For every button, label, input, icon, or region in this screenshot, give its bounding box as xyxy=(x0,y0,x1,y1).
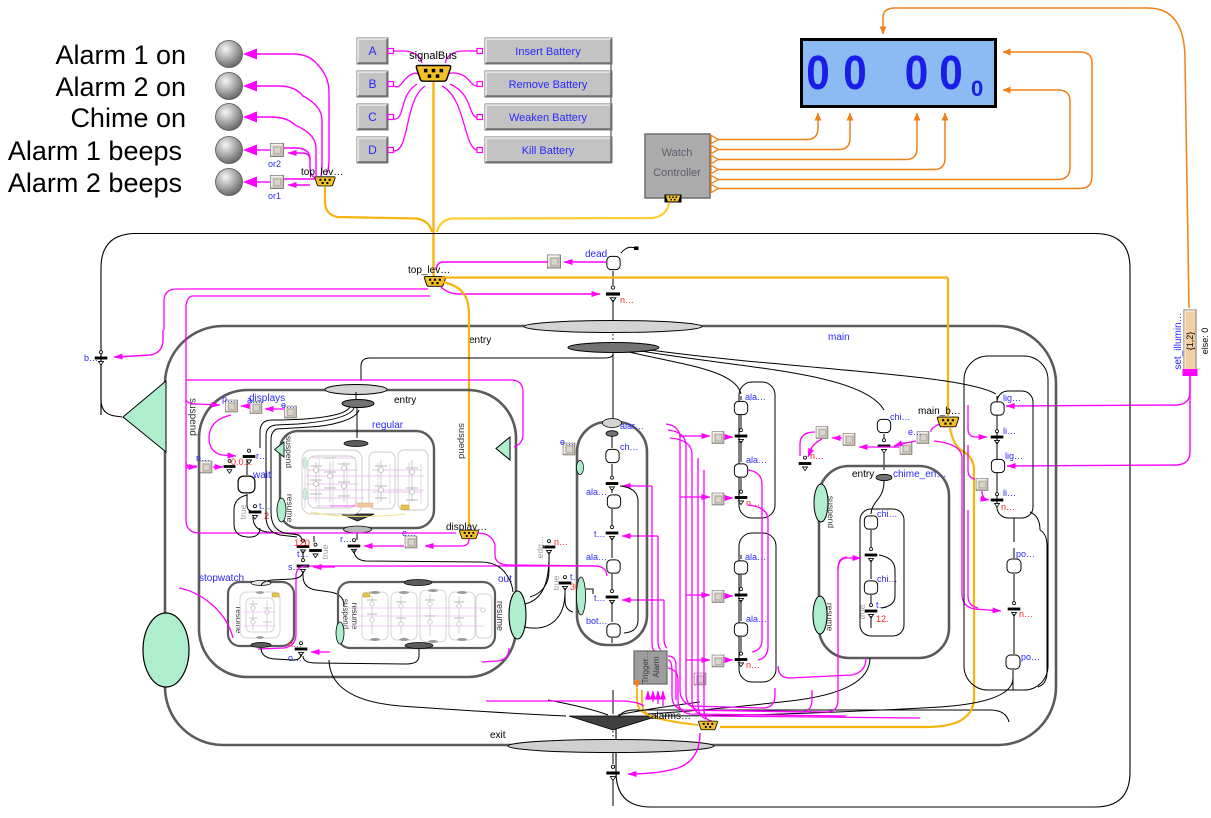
junction r bar (regular exit) xyxy=(348,539,361,554)
wire e to a xyxy=(265,408,284,410)
bus connector main_b xyxy=(937,417,958,427)
wire A1 to barA1 xyxy=(725,436,733,438)
junction po bar xyxy=(1008,602,1021,617)
chime_en container xyxy=(819,466,949,658)
alarm column container pill xyxy=(577,422,647,645)
bus wire top_lev down to main bus xyxy=(325,187,432,232)
SECTION:DISPLAY2 xyxy=(84,234,1130,808)
wire po bar left source xyxy=(968,510,978,608)
svg-text:0.0…: 0.0… xyxy=(231,457,253,467)
wire vertical feed t1 xyxy=(658,536,661,650)
logic block chime w2 xyxy=(843,434,855,446)
wire bundle tap y497 xyxy=(680,496,710,498)
state ala2 xyxy=(607,560,620,573)
state alaA2 xyxy=(734,464,747,477)
SECTION:CHIME2 xyxy=(964,356,1048,690)
logic block chime w3 xyxy=(900,443,912,455)
wire n block left loop xyxy=(186,466,197,470)
junction t bar (wait) xyxy=(249,505,262,520)
junction 00 bar xyxy=(224,460,236,474)
alarm loop right xyxy=(620,486,638,633)
transition dead down xyxy=(612,271,614,285)
svg-text:entry: entry xyxy=(394,395,416,406)
wire controller to display t1 xyxy=(719,113,818,140)
wire controller to display r1 xyxy=(719,90,1070,180)
transition ch to bar1 xyxy=(611,464,613,477)
bus wire down to main_b connector xyxy=(947,278,949,417)
svg-text:po…: po… xyxy=(1021,652,1040,662)
ghost yellow wire xyxy=(310,512,406,517)
bus wire main_b down right xyxy=(720,428,974,727)
suspend port triangle (main) xyxy=(123,381,166,452)
svg-text:Chime on: Chime on xyxy=(70,103,186,133)
svg-text:alar…: alar… xyxy=(620,421,644,431)
transition wait loop left xyxy=(234,495,260,537)
transition stopwatch link top xyxy=(261,571,303,586)
fan line entry to light column xyxy=(650,350,996,394)
svg-text:po…: po… xyxy=(1016,549,1035,559)
svg-text:signalBus: signalBus xyxy=(409,50,457,62)
wire or2 out to top_lev xyxy=(284,148,316,178)
transition regular bottom to r xyxy=(356,533,358,540)
bus connector top_lev (upper) xyxy=(315,177,335,186)
SECTION:OUTER2 xyxy=(186,385,526,678)
exit fan line left xyxy=(548,700,608,715)
exit fan from stopwatch xyxy=(329,660,566,716)
svg-text:regular: regular xyxy=(372,420,404,431)
fan line entry to chime xyxy=(641,351,884,410)
wire chime bottom exit xyxy=(778,658,866,678)
wire lamp2 to top_lev bundle xyxy=(256,86,322,176)
state chi1 xyxy=(864,516,877,529)
wire e block to chi bar xyxy=(894,441,916,446)
wire into n block xyxy=(186,462,197,467)
transition exit down xyxy=(612,752,614,764)
wire into triggeredalarm b xyxy=(652,691,654,702)
dead self-transition xyxy=(621,247,637,253)
bus wire top_lev to display connector xyxy=(443,282,469,526)
wide box top ellipse xyxy=(404,580,432,586)
junction b bar xyxy=(95,351,108,366)
alarm pill top dark ellipse xyxy=(606,431,618,437)
wire main_b to e block xyxy=(931,424,940,432)
junction chi bar top xyxy=(878,439,891,454)
svg-text:0: 0 xyxy=(806,45,829,99)
arrow into lamp4 xyxy=(243,145,257,156)
transition regular top line xyxy=(355,392,357,400)
wire loop into p block xyxy=(186,400,220,405)
arrow into lamp5 xyxy=(243,177,257,188)
svg-text:edg…: edg… xyxy=(535,536,545,559)
svg-text:t…: t… xyxy=(594,529,606,539)
junction bar t2 (alarm) xyxy=(606,590,619,605)
logic block chime w1 xyxy=(816,427,828,439)
wide box bottom ellipse xyxy=(405,643,433,649)
bus wire triggeredalarm to alarms a xyxy=(637,688,692,724)
svg-text:li…: li… xyxy=(1003,488,1016,498)
watch controller box xyxy=(645,134,710,198)
state po2 xyxy=(1006,655,1020,669)
svg-text:suspend: suspend xyxy=(456,423,467,459)
svg-text:n…: n… xyxy=(1001,502,1015,512)
svg-text:ala…: ala… xyxy=(745,552,766,562)
connector line lig group to vertical xyxy=(1030,512,1040,530)
wire block left from dead xyxy=(436,262,548,270)
controller output chevron 4 xyxy=(711,165,719,173)
wire signalBus to Weaken Battery xyxy=(450,84,481,118)
junction barB1 xyxy=(735,588,748,603)
svg-text:{1,2}: {1,2} xyxy=(1185,332,1195,351)
wire long horizontal y566 xyxy=(258,566,307,649)
state wait xyxy=(238,476,255,493)
junction li bar2 xyxy=(991,493,1004,508)
suspend triangle mid xyxy=(496,437,510,460)
set_illumination magenta cap xyxy=(1183,369,1198,376)
transition ala2 to t2 xyxy=(611,574,613,590)
wire button B to signalBus xyxy=(393,73,421,86)
junction 120 bar xyxy=(297,539,310,554)
inner bottom state boundary xyxy=(616,710,1009,745)
indicator lamp alarm1beeps xyxy=(216,137,243,164)
wire into li bar1 xyxy=(976,436,987,438)
junction barA2 xyxy=(735,490,748,505)
junction barA1 xyxy=(735,429,748,444)
terminal at Weaken xyxy=(477,115,483,120)
button Kill Battery xyxy=(485,39,612,163)
svg-text:chime_en…: chime_en… xyxy=(893,469,946,480)
ghost magenta wire xyxy=(330,505,356,507)
SECTION:TOPLEFT2 xyxy=(357,38,612,277)
svg-text:or1: or1 xyxy=(268,191,281,201)
controller output chevron 6 xyxy=(711,184,719,192)
transition chi1 to bar xyxy=(870,530,872,548)
wire e block to r bar xyxy=(364,545,404,547)
wire bundle v1 xyxy=(666,424,775,708)
svg-text:or2: or2 xyxy=(268,159,281,169)
regular bottom ellipse xyxy=(344,526,372,533)
logic block light xyxy=(976,479,988,491)
transition t down loop xyxy=(253,517,302,541)
transition r regular to out xyxy=(354,550,513,592)
wire bundle v5 xyxy=(704,470,712,721)
controller output chevron 1 xyxy=(711,135,719,143)
wire lamp5 to or1 xyxy=(256,181,270,183)
state dead xyxy=(607,256,620,269)
svg-text:A: A xyxy=(368,44,376,58)
light group outer container xyxy=(964,356,1048,690)
wire A2 to barA2 xyxy=(725,497,733,499)
svg-text:main: main xyxy=(828,332,850,343)
SECTION:SIGNALBUS2 xyxy=(437,8,1210,466)
exit fan from chime xyxy=(648,658,870,714)
wire chime right long xyxy=(934,441,1001,611)
transition displays entry second branch xyxy=(266,408,354,537)
bus connector alarms xyxy=(698,721,717,730)
wire display connector down right xyxy=(477,533,598,566)
transition lig2 links xyxy=(996,442,998,493)
svg-text:e…: e… xyxy=(560,437,574,447)
wire controller to display t4 xyxy=(719,113,945,170)
wire w3 to w2 xyxy=(859,446,899,448)
wire dead to block xyxy=(564,261,606,263)
wire horizontal y380 to suspend xyxy=(186,380,523,447)
state chi2 xyxy=(864,581,877,594)
wire alarms to exit bar xyxy=(628,733,700,774)
logic block or2 xyxy=(271,144,284,157)
bus connector on controller xyxy=(665,195,682,203)
resume port ellipse (main) xyxy=(143,613,189,687)
wire into chi bar1 xyxy=(845,557,861,559)
svg-text:chi…: chi… xyxy=(877,509,898,519)
entry ellipse dark (main) xyxy=(568,343,659,353)
svg-text:Weaken Battery: Weaken Battery xyxy=(509,112,588,124)
wire or1 out to top_lev xyxy=(284,178,316,180)
ghost bus icon xyxy=(401,505,409,510)
wire w2 to w1 xyxy=(832,437,842,439)
wire lamp4 to or2 xyxy=(256,149,270,151)
svg-text:0: 0 xyxy=(971,76,983,101)
wire lamp1 to top_lev bundle xyxy=(256,54,329,175)
svg-text:Remove Battery: Remove Battery xyxy=(509,79,588,91)
state ch xyxy=(606,449,619,462)
regular state container xyxy=(280,431,434,528)
svg-text:120: 120 xyxy=(294,538,310,549)
stopwatch top ellipse xyxy=(251,581,271,586)
terminal at C xyxy=(388,115,394,120)
wire loop light left xyxy=(968,445,975,479)
svg-text:else: 0: else: 0 xyxy=(1200,328,1210,355)
transition bar1 to ala1 xyxy=(611,489,613,493)
transition boundary to suspend triangle xyxy=(101,364,122,417)
transition true bar down xyxy=(565,588,573,612)
svg-text:li…: li… xyxy=(1003,426,1016,436)
bus connector top_lev lower xyxy=(424,277,445,287)
logic block e (alarm top) xyxy=(563,443,575,455)
svg-text:resume: resume xyxy=(825,603,835,632)
transition po bar to po2 xyxy=(1013,614,1014,690)
ghost bars wide box xyxy=(367,600,464,618)
wire signalBus to Insert Battery xyxy=(445,51,481,63)
transition po1 down xyxy=(1013,548,1015,602)
LCD digits hours xyxy=(806,45,963,99)
transition chi t down xyxy=(870,616,872,628)
transition chi top down xyxy=(883,434,885,470)
transition bot to bottom xyxy=(611,638,613,643)
main state container xyxy=(165,326,1056,745)
chime inner container xyxy=(860,509,904,636)
transition bar to chi2 xyxy=(870,560,872,604)
indicator lamp alarm2on xyxy=(216,73,243,100)
junction h bar xyxy=(606,286,620,302)
svg-text:stopwatch: stopwatch xyxy=(199,573,244,584)
logic block or1 xyxy=(271,176,284,189)
wire bundle tap y660 xyxy=(686,659,710,661)
logic block B1 xyxy=(712,591,724,603)
logic block p xyxy=(226,400,238,412)
regular top dark ellipse xyxy=(344,441,368,447)
svg-text:n…: n… xyxy=(810,451,824,461)
block set_illumination xyxy=(1184,310,1196,372)
svg-text:b…: b… xyxy=(84,353,98,363)
ghost green pills regular xyxy=(303,457,307,469)
wire display connector left xyxy=(425,539,469,546)
svg-text:0: 0 xyxy=(843,45,866,99)
terminal at Kill xyxy=(477,148,483,153)
hook mark xyxy=(586,589,593,594)
resume ellipse (regular) xyxy=(277,498,286,522)
transition t1 to ala2 xyxy=(611,538,613,558)
suspend triangle (regular) xyxy=(275,442,285,457)
wire resume into stopwatch xyxy=(179,588,233,638)
transition wide box bottom loop xyxy=(303,649,419,664)
svg-text:suspend: suspend xyxy=(284,436,294,468)
exit fan from light column xyxy=(660,678,1013,716)
wire into triggeredalarm a xyxy=(647,691,649,700)
svg-text:Alarm 1 beeps: Alarm 1 beeps xyxy=(8,136,182,166)
wire vertical feed t2 xyxy=(664,600,667,648)
junction r bar (wait) xyxy=(243,449,256,464)
svg-text:t…: t… xyxy=(594,593,606,603)
wire controller to display t2 xyxy=(719,113,850,150)
logic block e (regular) xyxy=(405,536,417,548)
wire bundle v2 xyxy=(668,430,847,712)
wire signalBus to Remove Battery xyxy=(446,73,481,86)
wire into alarm bar1 xyxy=(622,485,652,487)
wire triggeredalarm left taps xyxy=(668,656,676,700)
wire right column mid loop xyxy=(748,470,762,652)
svg-text:ala…: ala… xyxy=(746,455,767,465)
bus wire signalBus vertical xyxy=(432,82,434,277)
ghost diagram wide box xyxy=(362,590,492,642)
wire set_illumination to display top xyxy=(883,8,1189,308)
button Remove Battery xyxy=(485,71,612,97)
ghost tan bar xyxy=(357,503,373,507)
svg-text:t…: t… xyxy=(259,501,271,511)
controller output chevron 2 xyxy=(711,145,719,153)
wire bundle strand b xyxy=(668,668,846,716)
wire into triggeredalarm d xyxy=(662,691,664,706)
wire block light to bar2 xyxy=(982,491,989,500)
button A xyxy=(357,38,388,64)
svg-text:bot…: bot… xyxy=(586,616,608,626)
ghost diagram regular xyxy=(302,450,428,514)
fan line entry to middle column xyxy=(629,352,741,394)
ghost circles regular xyxy=(314,466,415,495)
wire button C to signalBus xyxy=(393,84,417,119)
terminal at A xyxy=(388,49,394,54)
svg-text:n…: n… xyxy=(196,453,210,463)
transition t2 to bot xyxy=(611,602,613,622)
state bot xyxy=(607,624,620,637)
bus wire triggeredalarm to alarms b xyxy=(642,690,698,725)
wire button D to signalBus xyxy=(393,86,425,151)
svg-text:Alarm: Alarm xyxy=(652,656,661,677)
terminal at Remove xyxy=(477,82,483,87)
svg-text:D: D xyxy=(368,143,377,157)
entry ellipse light (main) xyxy=(524,321,702,333)
wire loop chime top xyxy=(800,432,815,456)
ghost extras stopwatch xyxy=(249,604,272,622)
svg-text:Insert Battery: Insert Battery xyxy=(515,46,581,58)
indicator lamp chimeon xyxy=(216,104,243,131)
wire bottom long left xyxy=(486,701,644,706)
svg-text:set_illumin…: set_illumin… xyxy=(1173,312,1184,369)
transition lig1 links xyxy=(996,396,998,430)
svg-text:Alarm 1 on: Alarm 1 on xyxy=(55,40,186,70)
svg-text:true: true xyxy=(238,504,248,519)
transition light group down xyxy=(1013,518,1015,542)
transition displays entry line down xyxy=(356,407,358,438)
wire top_lev left to b bar region xyxy=(164,289,428,330)
ghost bus wide box xyxy=(363,593,370,597)
bus connector display xyxy=(459,530,478,539)
svg-text:exit: exit xyxy=(490,730,506,741)
wire right column mid loop b xyxy=(748,505,768,660)
svg-text:Watch: Watch xyxy=(662,147,693,159)
transition exit bar down xyxy=(612,780,614,806)
svg-text:s…: s… xyxy=(288,562,302,572)
button B xyxy=(357,71,388,97)
logic block B3 xyxy=(694,673,706,685)
alarm pill top light ellipse xyxy=(603,419,622,428)
entry ellipse dark (displays) xyxy=(342,400,374,408)
state lig1 xyxy=(991,402,1004,415)
svg-text:ala…: ala… xyxy=(586,552,607,562)
svg-text:t…: t… xyxy=(876,600,888,610)
svg-text:resume: resume xyxy=(285,494,295,523)
wire bundle v3 xyxy=(670,438,920,718)
transition alaA1 down xyxy=(740,396,742,429)
wire controller to display r2 xyxy=(719,52,1092,189)
state lig2 xyxy=(991,459,1004,472)
logic block chime e xyxy=(917,432,929,444)
LCD display xyxy=(802,40,996,107)
logic block n (displays) xyxy=(200,461,212,473)
logic block A2 xyxy=(712,493,724,505)
junction bar alarm1 xyxy=(606,476,619,491)
dead self-transition dot xyxy=(634,247,639,251)
suspend leaf chime xyxy=(814,484,828,522)
button C xyxy=(357,104,388,130)
SECTION:RIGHTCOL2 xyxy=(329,658,1013,806)
svg-text:true: true xyxy=(551,575,561,590)
wire controller to display t3 xyxy=(719,113,917,160)
top-level state boundary xyxy=(101,234,1130,808)
svg-text:wait: wait xyxy=(252,470,271,481)
transition alaB2 links xyxy=(740,600,742,652)
transition r to wait xyxy=(246,461,248,475)
svg-text:true: true xyxy=(320,544,330,559)
svg-text:chi…: chi… xyxy=(877,574,898,584)
transition alar to ch xyxy=(611,436,613,448)
junction chi t bar xyxy=(865,604,878,619)
transition edg down xyxy=(530,552,549,597)
indicator lamp alarm2beeps xyxy=(216,169,243,196)
entry ellipse light (displays) xyxy=(325,385,387,395)
transition displays entry to wait column xyxy=(260,407,350,448)
wire signalBus to Kill Battery xyxy=(442,86,481,151)
logic block A1 xyxy=(712,432,724,444)
fan line entry to alarm column xyxy=(612,352,614,418)
svg-text:main_b…: main_b… xyxy=(918,406,961,417)
svg-text:top_lev…: top_lev… xyxy=(408,265,450,276)
transition ala1 to t1 xyxy=(611,509,613,526)
wire set_illumination output a xyxy=(1006,376,1190,406)
wire B1 to barB1 xyxy=(725,595,733,597)
svg-text:p…: p… xyxy=(222,394,236,404)
svg-text:dead: dead xyxy=(585,249,607,260)
svg-text:r…: r… xyxy=(340,534,352,544)
